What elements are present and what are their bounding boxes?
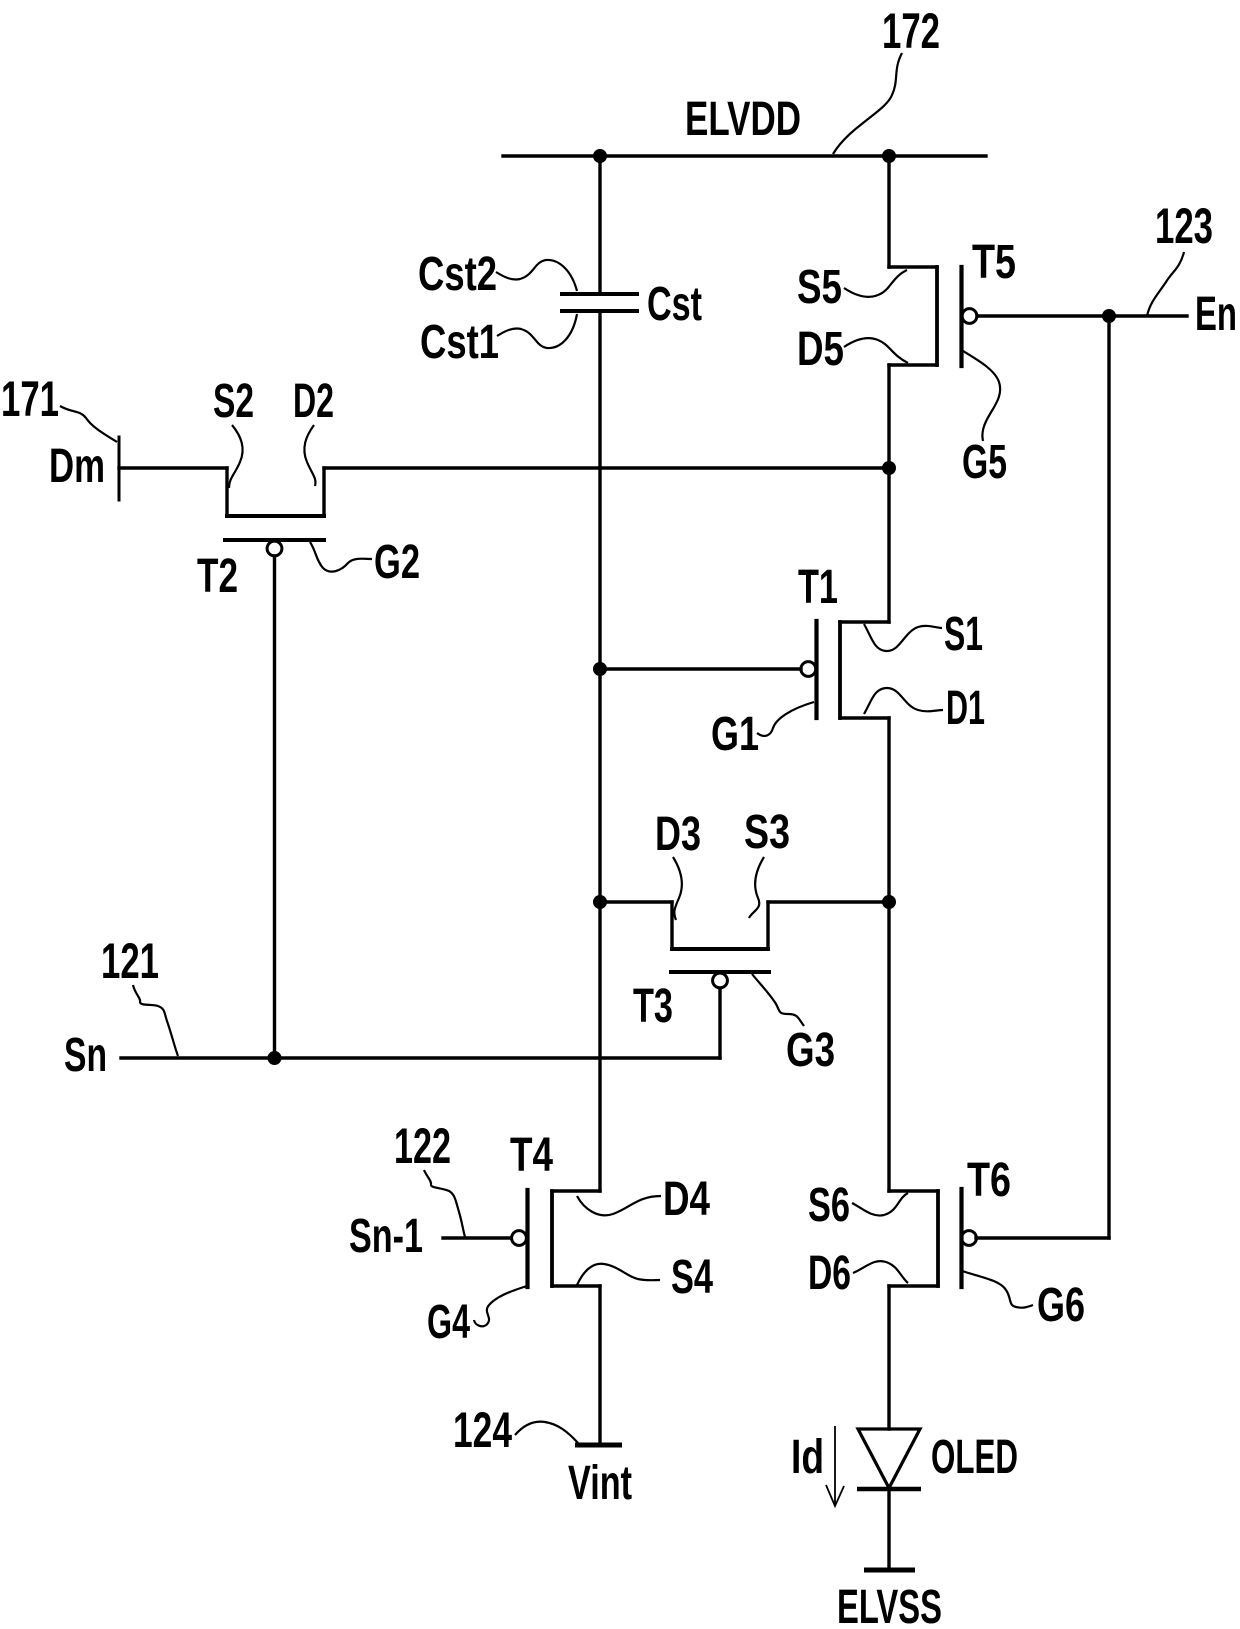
leader D2 to T2 drain xyxy=(304,425,315,486)
leader 171 to Dm tick xyxy=(60,406,117,442)
wire T1 drain down to N2 node xyxy=(887,718,890,902)
wire T4 source down to Vint xyxy=(598,1286,601,1445)
node junction Dm/T5-T1 xyxy=(882,461,896,475)
transistor T6 channel bar xyxy=(936,1191,940,1286)
leader S1 to T1 source xyxy=(864,624,942,651)
transistor T6 gate bar G6 xyxy=(959,1189,963,1287)
leader S5 to T5 source xyxy=(844,270,907,297)
leader Cst1 to bottom plate xyxy=(497,314,577,348)
wire T3 source to N2 node xyxy=(768,900,889,903)
transistor T5 gate bar G5 xyxy=(959,267,963,366)
svg-text:ELVSS: ELVSS xyxy=(837,1581,942,1629)
transistor T1 source lead S1 xyxy=(840,620,889,623)
transistor T1 drain lead D1 xyxy=(840,716,889,719)
leader 121 to Sn wire xyxy=(133,985,178,1056)
svg-text:D3: D3 xyxy=(655,808,701,861)
terminal tick of Dm input xyxy=(118,437,121,500)
svg-text:Sn: Sn xyxy=(64,1029,107,1082)
transistor T3 drain lead D3 xyxy=(670,902,673,949)
transistor T2 drain lead D2 xyxy=(322,468,325,516)
wire T6 drain down to OLED anode xyxy=(887,1286,890,1429)
transistor T4 channel bar xyxy=(550,1191,554,1286)
capacitor Cst bottom plate Cst1 xyxy=(562,309,637,313)
svg-text:S3: S3 xyxy=(744,806,790,859)
svg-text:D5: D5 xyxy=(797,323,844,376)
leader S3 to T3 source lead xyxy=(749,857,764,918)
wire T1 gate from node N1 xyxy=(600,667,801,670)
leader 124 to Vint bar xyxy=(515,1422,578,1443)
leader G6 to T6 gate xyxy=(962,1271,1033,1308)
svg-text:S5: S5 xyxy=(797,261,842,314)
transistor T2 source lead S2 xyxy=(225,468,228,516)
current arrow Id xyxy=(826,1426,844,1506)
svg-text:Cst1: Cst1 xyxy=(420,316,499,369)
svg-text:T4: T4 xyxy=(510,1129,553,1182)
terminal ELVSS bar xyxy=(864,1568,915,1573)
wire Sn-1 scan line xyxy=(443,1236,511,1239)
svg-text:D2: D2 xyxy=(293,375,334,428)
transistor T1 gate bar G1 xyxy=(814,621,818,718)
transistor T2 channel bar xyxy=(227,514,324,518)
svg-text:121: 121 xyxy=(101,933,159,989)
wire ELVDD power rail xyxy=(503,154,986,157)
transistor T3 gate bar G3 xyxy=(671,970,769,974)
transistor T2 gate circle (p-type) xyxy=(267,541,282,556)
wire Dm from T2 drain to x=889 node xyxy=(324,466,889,469)
transistor T4 source lead S4 xyxy=(552,1284,600,1287)
svg-text:T5: T5 xyxy=(972,236,1016,289)
transistor T3 source lead S3 xyxy=(766,902,769,949)
svg-text:171: 171 xyxy=(1,371,59,427)
leader D4 to T4 drain lead xyxy=(577,1196,661,1215)
leader G2 to T2 gate xyxy=(310,542,372,572)
leader 123 to En wire xyxy=(1147,252,1184,316)
transistor T1 channel bar xyxy=(838,622,842,718)
diode OLED cathode bar xyxy=(857,1487,921,1492)
wire net N1 vertical (Cst/T1-gate column x=600, upper) xyxy=(598,156,601,294)
wire N2 node down to T6 source xyxy=(887,902,890,1191)
transistor T3 channel bar xyxy=(672,947,768,951)
svg-text:En: En xyxy=(1195,288,1237,341)
wire Sn scan line xyxy=(121,1056,720,1059)
leader G3 to T3 gate xyxy=(752,974,804,1026)
svg-text:S1: S1 xyxy=(944,608,983,661)
transistor T2 gate bar G2 xyxy=(225,538,324,542)
transistor T4 gate circle (p-type) xyxy=(512,1231,527,1246)
leader 122 to Sn-1 wire xyxy=(424,1170,465,1237)
transistor T5 channel bar xyxy=(935,267,939,365)
wire ELVDD to T5 source (x=889 upper) xyxy=(887,156,890,267)
svg-text:172: 172 xyxy=(882,3,940,59)
transistor T6 gate circle (p-type) xyxy=(962,1231,977,1246)
leader G5 to T5 gate xyxy=(963,351,1000,441)
svg-text:T2: T2 xyxy=(197,550,238,603)
leader G4 to T4 gate xyxy=(474,1286,527,1326)
transistor T6 drain lead D6 xyxy=(889,1284,938,1287)
svg-text:D4: D4 xyxy=(663,1173,710,1226)
wire En vertical down to T6 gate xyxy=(1107,316,1110,1238)
wire Dm node down to T1 source xyxy=(887,468,890,622)
leader D3 to T3 drain lead xyxy=(673,857,682,920)
svg-text:S2: S2 xyxy=(213,375,254,428)
wire OLED cathode down to ELVSS xyxy=(887,1489,890,1570)
leader D6 to T6 drain xyxy=(853,1261,908,1283)
svg-text:OLED: OLED xyxy=(931,1431,1018,1484)
leader G1 to T1 gate xyxy=(757,702,814,736)
node junction ELVDD/T5 xyxy=(882,149,896,163)
svg-text:D6: D6 xyxy=(808,1247,851,1300)
svg-text:ELVDD: ELVDD xyxy=(685,93,801,146)
svg-text:G3: G3 xyxy=(786,1024,835,1077)
node junction En/T5 gate xyxy=(1102,309,1116,323)
svg-text:G6: G6 xyxy=(1037,1279,1085,1332)
svg-text:D1: D1 xyxy=(946,682,985,735)
svg-text:T3: T3 xyxy=(633,980,673,1033)
node junction N2/T3 source xyxy=(882,895,896,909)
svg-text:Dm: Dm xyxy=(49,440,105,493)
leader D5 to T5 drain xyxy=(844,338,908,363)
svg-text:S6: S6 xyxy=(808,1179,850,1232)
wire T6 gate horizontal from En line xyxy=(976,1236,1109,1239)
leader Cst2 to top plate xyxy=(496,260,577,291)
svg-text:T6: T6 xyxy=(967,1154,1011,1207)
leader 172 to ELVDD xyxy=(833,53,902,154)
leader S6 to T6 source xyxy=(852,1193,908,1216)
diode OLED triangle xyxy=(858,1429,920,1488)
node junction ELVDD/N1 xyxy=(593,149,607,163)
node junction N1/T3 drain xyxy=(593,895,607,909)
wire net N1 vertical (below Cst to T4 drain) xyxy=(598,311,601,1191)
wire T3 gate down to Sn line xyxy=(718,988,721,1058)
wire Dm data line (tick to T2 source) xyxy=(119,466,227,469)
svg-text:S4: S4 xyxy=(671,1251,713,1304)
svg-text:G2: G2 xyxy=(374,536,420,589)
svg-text:G5: G5 xyxy=(962,436,1007,489)
transistor T5 drain lead D5 xyxy=(889,363,937,366)
node junction N1/T1 gate xyxy=(593,662,607,676)
wire N1 node to T3 drain lead xyxy=(600,900,672,903)
svg-text:G1: G1 xyxy=(711,708,759,761)
leader squiggles xyxy=(60,53,1184,1443)
svg-text:Cst2: Cst2 xyxy=(418,248,497,301)
transistor T6 source lead S6 xyxy=(889,1189,938,1192)
svg-text:124: 124 xyxy=(453,1402,512,1458)
capacitor Cst top plate Cst2 xyxy=(562,292,637,296)
svg-text:Vint: Vint xyxy=(568,1457,632,1510)
leader S4 to T4 source lead xyxy=(577,1264,660,1285)
svg-text:123: 123 xyxy=(1155,198,1213,254)
terminal Vint bar xyxy=(575,1443,622,1448)
wire T5 drain down to Dm node xyxy=(887,365,890,468)
leader S2 to T2 source xyxy=(229,425,243,488)
transistor T5 gate circle (p-type) xyxy=(962,309,977,324)
node junction Sn/T2 gate xyxy=(268,1051,282,1065)
leader D1 to T1 drain xyxy=(864,688,943,714)
svg-text:G4: G4 xyxy=(427,1296,470,1349)
svg-text:T1: T1 xyxy=(798,561,838,614)
svg-text:Id: Id xyxy=(791,1431,824,1484)
transistor T4 gate bar G4 xyxy=(525,1190,529,1287)
transistor T1 gate circle (p-type) xyxy=(801,662,816,677)
transistor T5 source lead S5 xyxy=(889,265,937,268)
svg-text:122: 122 xyxy=(394,1118,451,1174)
svg-text:Cst: Cst xyxy=(647,278,702,331)
wire En horizontal to T5 gate xyxy=(977,314,1187,317)
transistor T3 gate circle (p-type) xyxy=(713,973,728,988)
wire T2 gate down to Sn line xyxy=(273,556,276,1058)
svg-text:Sn-1: Sn-1 xyxy=(349,1210,423,1263)
transistor T4 drain lead D4 xyxy=(552,1189,600,1192)
